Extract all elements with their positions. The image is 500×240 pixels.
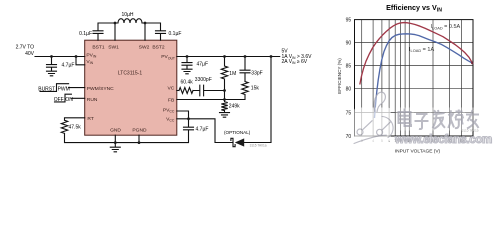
svg-text:70: 70 xyxy=(346,134,352,140)
svg-text:PGND: PGND xyxy=(132,128,147,134)
svg-text:95: 95 xyxy=(346,18,352,24)
svg-text:60.4k: 60.4k xyxy=(181,80,194,86)
svg-text:4.7µF: 4.7µF xyxy=(196,126,209,132)
svg-text:80: 80 xyxy=(346,86,352,92)
svg-text:INPUT VOLTAGE (V): INPUT VOLTAGE (V) xyxy=(395,148,441,154)
svg-text:OFF: OFF xyxy=(54,97,64,103)
svg-text:ILOAD = 1A: ILOAD = 1A xyxy=(409,47,434,53)
svg-text:PWM/SYNC: PWM/SYNC xyxy=(87,86,114,92)
svg-text:85: 85 xyxy=(346,63,352,69)
svg-text:ILOAD = 0.5A: ILOAD = 0.5A xyxy=(431,24,461,30)
svg-text:75: 75 xyxy=(346,110,352,116)
svg-text:GND: GND xyxy=(110,128,121,134)
svg-text:90: 90 xyxy=(346,41,352,47)
svg-text:2.7V TO: 2.7V TO xyxy=(16,45,35,51)
svg-text:33pF: 33pF xyxy=(251,71,262,77)
svg-text:SW1: SW1 xyxy=(108,45,119,51)
svg-text:FB: FB xyxy=(168,98,174,104)
svg-text:47.5k: 47.5k xyxy=(69,125,82,131)
svg-text:1M: 1M xyxy=(229,71,236,77)
svg-text:47µF: 47µF xyxy=(197,62,209,68)
svg-text:BURST: BURST xyxy=(38,86,55,92)
svg-text:3115 TA01a: 3115 TA01a xyxy=(250,143,267,147)
svg-text:PWM: PWM xyxy=(58,86,70,92)
svg-text:10µH: 10µH xyxy=(121,12,133,18)
svg-text:40V: 40V xyxy=(25,51,35,57)
svg-text:VC: VC xyxy=(168,85,175,91)
svg-text:0.1µF: 0.1µF xyxy=(169,31,182,37)
svg-text:249k: 249k xyxy=(229,104,240,110)
svg-text:15k: 15k xyxy=(251,86,260,92)
svg-text:LTC3115-1: LTC3115-1 xyxy=(118,71,142,77)
svg-text:4.7µF: 4.7µF xyxy=(62,63,75,69)
svg-text:www.elecfans.com: www.elecfans.com xyxy=(394,134,492,146)
svg-text:SW2: SW2 xyxy=(139,45,150,51)
svg-text:3300pF: 3300pF xyxy=(195,77,212,83)
svg-text:2A VIN ≥ 6V: 2A VIN ≥ 6V xyxy=(282,59,308,65)
svg-text:RUN: RUN xyxy=(87,97,98,103)
svg-text:BST2: BST2 xyxy=(152,45,165,51)
svg-text:0.1µF: 0.1µF xyxy=(79,31,92,37)
svg-text:(OPTIONAL): (OPTIONAL) xyxy=(224,130,251,135)
svg-text:ON: ON xyxy=(65,97,73,103)
svg-text:EFFICIENCY (%): EFFICIENCY (%) xyxy=(337,58,342,94)
svg-text:RT: RT xyxy=(87,116,93,122)
svg-text:Efficiency vs VIN: Efficiency vs VIN xyxy=(386,3,442,13)
svg-text:BST1: BST1 xyxy=(92,45,105,51)
